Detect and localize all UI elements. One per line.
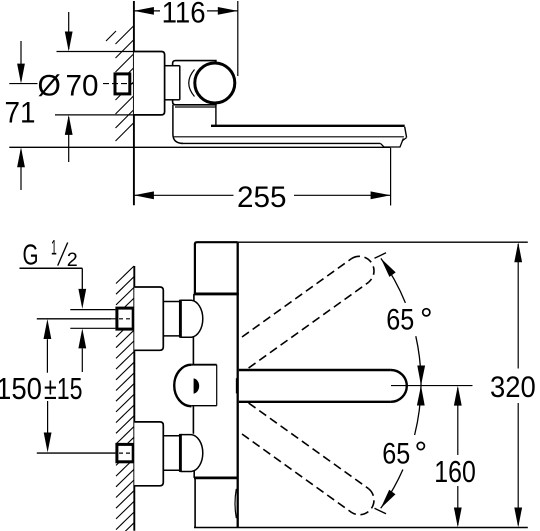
spout (front, solid) top edge: [239, 369, 391, 371]
dimension Ø70 arrow bottom: [68, 117, 70, 162]
dimension Ø70 arrow top: [68, 12, 70, 49]
spout tip: [405, 127, 407, 138]
spout centerline extension: [391, 385, 473, 387]
spout mid edge: [174, 136, 404, 138]
escutcheon (side view): [134, 52, 165, 115]
lower escutcheon (front): [134, 422, 163, 486]
spout top edge: [211, 125, 405, 127]
svg-text:160: 160: [434, 455, 476, 489]
upper neck (front): [163, 301, 180, 303]
angle arc center arrows: [417, 366, 425, 386]
supply pipe: [70, 309, 115, 311]
inlet centerline (top view): [9, 83, 37, 85]
body top section (front): [195, 242, 238, 294]
svg-text:255: 255: [237, 181, 287, 214]
bottom reference line: [194, 527, 528, 529]
svg-text:1: 1: [51, 237, 57, 260]
angle arc upper: [381, 258, 406, 303]
dimension 150 arrow top: [46, 339, 48, 373]
upper escutcheon (front): [134, 287, 163, 350]
dimension 116: [134, 10, 160, 12]
pivot edge line: [235, 378, 237, 393]
cylinder shoulder arc: [189, 70, 195, 97]
bracket right edge: [215, 105, 217, 126]
angle arc lower: [415, 386, 421, 436]
svg-text:320: 320: [490, 371, 536, 404]
body bottom section: [194, 478, 196, 528]
body bold divider upper: [194, 292, 239, 295]
dimension Ø70 extension bottom: [55, 114, 134, 116]
spout bracket (side view): [173, 105, 183, 144]
neck joint line: [179, 66, 181, 100]
dimension 160: [457, 388, 459, 455]
dimension 71 arrow bottom: [20, 150, 22, 190]
spout bottom edge: [239, 401, 391, 403]
lower dashed spout position: [242, 403, 374, 515]
upper inlet fitting: [117, 308, 133, 329]
faucet body (side view): [173, 61, 216, 105]
lower inlet fitting: [117, 444, 133, 461]
pipe centerline: [37, 318, 111, 320]
dimension 116 extension right: [237, 1, 239, 76]
wall hatching (bottom view): [116, 266, 134, 531]
wall hatching (top view): [106, 26, 134, 142]
dimension 150 arrow bottom: [47, 401, 49, 433]
spout bottom edge: [181, 142, 380, 144]
sensor pupil: [194, 378, 200, 393]
lower neck (front): [163, 435, 180, 437]
spout end cap: [391, 370, 407, 402]
end cap circle (side view): [195, 63, 235, 103]
sensor window: [174, 365, 191, 407]
top extension line: [238, 241, 528, 243]
dimension 71 arrow top: [20, 41, 22, 81]
svg-text:Ø: Ø: [38, 69, 61, 102]
svg-text:150: 150: [0, 372, 42, 406]
svg-text:70: 70: [66, 69, 99, 102]
svg-text:±15: ±15: [44, 372, 83, 406]
lower inlet centerline: [37, 452, 116, 454]
inlet fitting (top view): [115, 74, 130, 94]
dimension 255: [134, 194, 234, 196]
dimension Ø70 extension top: [57, 51, 134, 53]
dimension 320: [517, 244, 519, 369]
body right edge: [237, 242, 239, 527]
dimension 255 extension: [390, 148, 392, 206]
wall (top view): [133, 1, 135, 205]
arc end overshoot ticks: [375, 253, 387, 258]
svg-text:G: G: [23, 239, 39, 271]
body left edge segments: [193, 294, 195, 301]
spout outlet reference line: [9, 146, 390, 148]
G1/2 leader line: [20, 267, 83, 269]
svg-text:71: 71: [5, 96, 36, 129]
lower check valve dome: [180, 435, 202, 472]
aerator: [381, 138, 404, 147]
tolerance arrow ±15: [81, 349, 83, 373]
upper dashed spout position: [242, 256, 374, 368]
svg-text:116: 116: [162, 0, 206, 29]
upper check valve dome: [180, 300, 202, 337]
wall (bottom view): [133, 266, 135, 531]
neck (side view): [165, 65, 180, 67]
svg-text:65: 65: [386, 303, 414, 336]
svg-text:65: 65: [382, 437, 410, 470]
